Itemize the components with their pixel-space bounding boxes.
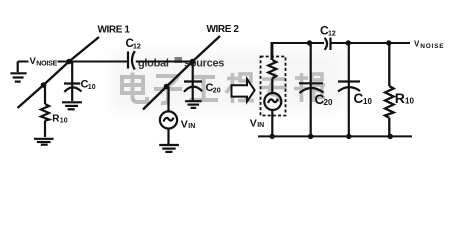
label C20 (left): [206, 82, 221, 94]
ground (below R10 left): [34, 139, 54, 145]
node A junction dot (wire1): [66, 59, 72, 65]
node D junction dot (wire2 / VIN): [164, 84, 170, 90]
svg-text:10: 10: [88, 84, 96, 91]
junction dot bottom rail at VIN: [270, 134, 275, 139]
ground (left, at VNOISE): [10, 62, 26, 82]
ground (below C20 left): [185, 101, 202, 108]
top rail (right circuit): [272, 43, 325, 60]
junction dot top rail at C20: [307, 40, 312, 45]
bottom rail (right circuit): [258, 135, 412, 137]
label C20 (right): [315, 92, 333, 107]
watermark chinese char 6 (ji): [294, 73, 325, 102]
watermark chinese char 5 (zhuan): [260, 73, 287, 102]
wire VIN (right) to bottom rail: [271, 110, 273, 136]
label VNOISE (right): [414, 40, 444, 51]
watermark chinese char 4 (cheng): [226, 73, 254, 103]
AC source VIN (left): [160, 111, 177, 128]
svg-text:12: 12: [328, 31, 336, 38]
wire node A to C12: [69, 61, 127, 63]
label C10 (left): [81, 79, 96, 92]
capacitor C10 (right) branch: [348, 43, 350, 136]
label R10 (right): [395, 90, 415, 106]
capacitor C20 (right) branch: [310, 43, 312, 136]
svg-text:R: R: [395, 90, 405, 106]
junction dot top rail at R10: [386, 40, 391, 45]
label VIN (left): [181, 119, 196, 131]
svg-text:NOISE: NOISE: [420, 43, 444, 50]
svg-text:IN: IN: [188, 123, 195, 130]
capacitor C10 (right) plates: [338, 82, 360, 92]
wire node D to VIN source: [167, 87, 169, 89]
svg-text:20: 20: [213, 87, 221, 94]
label R10 (left): [52, 114, 67, 125]
junction dot bottom rail at C20: [308, 134, 313, 139]
svg-text:V: V: [181, 119, 188, 131]
svg-text:IN: IN: [257, 122, 264, 129]
ground (below VIN left): [159, 145, 179, 152]
label VIN (right): [250, 118, 265, 130]
wire from VNOISE label to node A: [58, 61, 70, 63]
svg-text:NOISE: NOISE: [36, 60, 57, 67]
svg-text:WIRE 1: WIRE 1: [98, 25, 131, 36]
watermark logo square: [175, 57, 183, 63]
svg-text:12: 12: [133, 44, 141, 51]
resistor R10 (left): [41, 85, 49, 137]
junction dot bottom rail at C10: [346, 134, 351, 139]
watermark chinese char 3 (gong): [189, 77, 218, 100]
wire 1 (diagonal transmission line): [18, 37, 100, 108]
wire from ground to VNOISE label: [18, 61, 29, 63]
watermark haze: [112, 52, 342, 110]
AC source VIN (right): [264, 93, 281, 110]
label VNOISE (left): [30, 56, 58, 67]
capacitor C20 (left) plates: [184, 82, 202, 92]
capacitor C12 (left schematic): [128, 51, 135, 70]
dashed source box: [261, 57, 286, 116]
label C12 (left): [126, 38, 141, 51]
ground (below C10 left): [62, 102, 82, 109]
svg-text:10: 10: [363, 97, 372, 106]
capacitor C20 (right) plates: [299, 83, 324, 93]
junction dot bottom rail at R10: [388, 134, 393, 139]
svg-text:WIRE 2: WIRE 2: [207, 24, 240, 35]
svg-text:V: V: [414, 40, 420, 49]
label C12 (right): [320, 24, 336, 38]
wire 2 (diagonal transmission line): [143, 36, 220, 110]
svg-text:global: global: [138, 58, 169, 70]
capacitor C10 (left) plates: [64, 84, 82, 93]
svg-text:C: C: [354, 91, 364, 106]
svg-text:20: 20: [324, 98, 333, 107]
capacitor C12 (right) plates: [325, 38, 331, 51]
node C junction dot (wire2 / C12 / C20): [190, 59, 196, 65]
capacitor C10 (left) stem: [71, 62, 73, 102]
wire VIN to ground (left): [167, 129, 169, 144]
capacitor C20 (left) stem: [192, 62, 194, 101]
watermark chinese char 2 (zi): [154, 76, 182, 103]
watermark chinese char 1 (dian): [122, 73, 147, 103]
svg-text:V: V: [250, 118, 257, 130]
equivalence arrow: [232, 79, 255, 102]
resistor R10 (right): [385, 43, 394, 136]
junction dot top rail at C10: [346, 40, 351, 45]
wire C12 to node C: [136, 61, 193, 63]
svg-text:10: 10: [60, 118, 68, 125]
label C10 (right): [354, 91, 373, 106]
resistor RS (in dashed box): [268, 43, 276, 93]
svg-text:10: 10: [405, 97, 414, 106]
node B junction dot (wire1 / R10): [41, 82, 47, 88]
